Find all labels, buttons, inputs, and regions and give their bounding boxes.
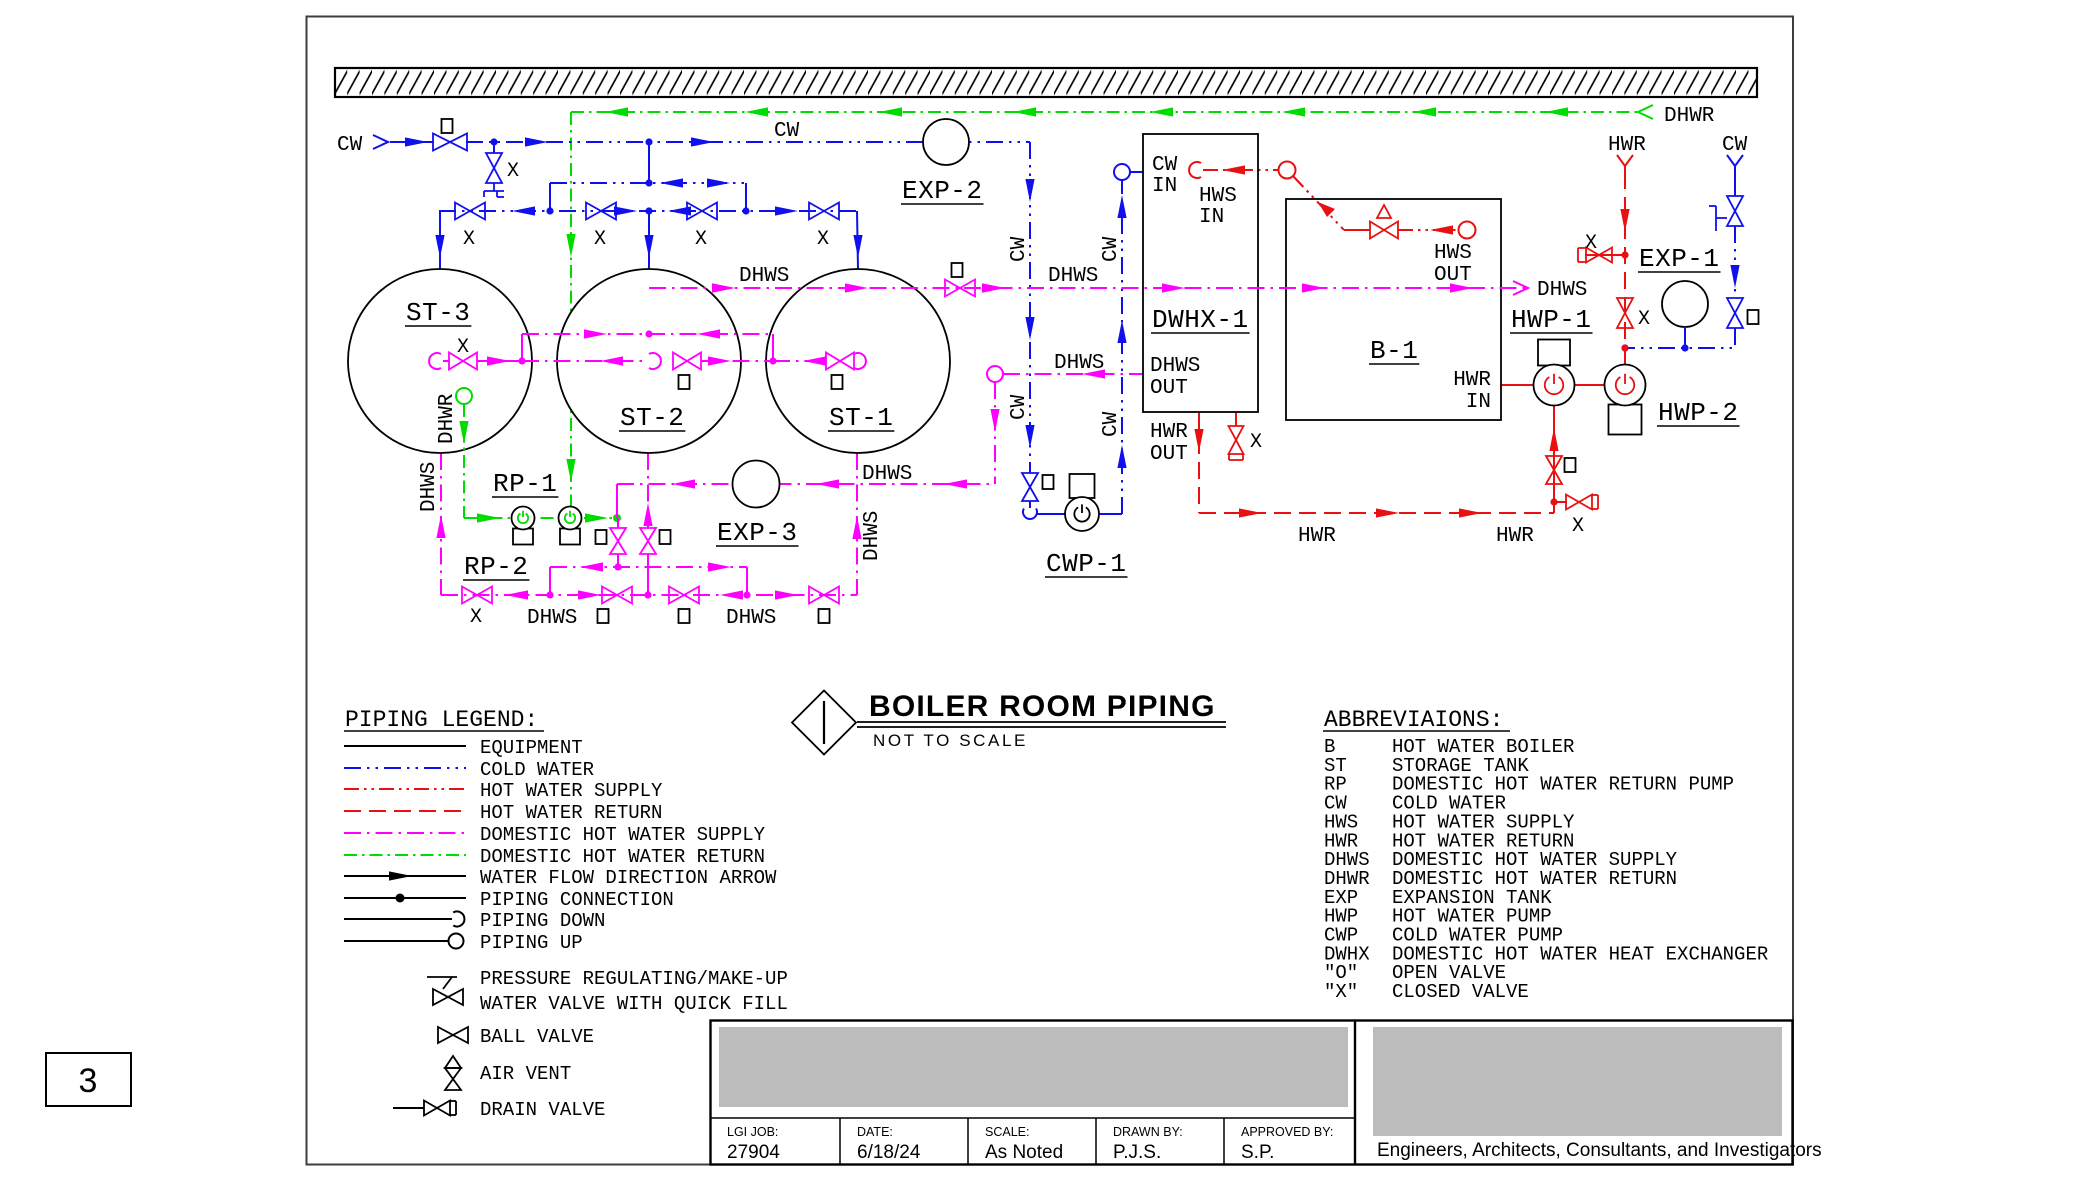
ball valve CW at CWP-1 (open) bbox=[1022, 473, 1038, 501]
svg-text:DRAWN BY:: DRAWN BY: bbox=[1113, 1125, 1183, 1139]
DHWR riser arrows bbox=[566, 234, 575, 257]
redacted logo box left bbox=[719, 1027, 1348, 1107]
storage tank ST-2 bbox=[557, 269, 741, 453]
svg-text:CW: CW bbox=[1008, 394, 1031, 420]
svg-text:X: X bbox=[507, 160, 519, 183]
svg-text:RP-2: RP-2 bbox=[464, 552, 528, 582]
svg-text:DHWS: DHWS bbox=[862, 463, 912, 486]
tank internal rows redraw bbox=[522, 333, 773, 335]
ball valve CW ST-2 (closed) bbox=[586, 203, 616, 220]
ball valve recirc 3 (open) bbox=[669, 587, 699, 604]
svg-text:CW: CW bbox=[337, 134, 363, 157]
pipe CW make-up down bbox=[1734, 226, 1736, 298]
svg-text:WATER FLOW DIRECTION ARROW: WATER FLOW DIRECTION ARROW bbox=[480, 867, 777, 889]
svg-text:IN: IN bbox=[1152, 175, 1177, 198]
svg-text:ST-2: ST-2 bbox=[620, 403, 684, 433]
svg-text:PIPING LEGEND:: PIPING LEGEND: bbox=[345, 707, 538, 733]
legend air vent bbox=[445, 1056, 461, 1068]
HWS port symbols over DWHX bbox=[1189, 162, 1201, 178]
boiler B-1 bbox=[1286, 199, 1501, 420]
svg-text:HWR: HWR bbox=[1150, 421, 1188, 444]
svg-text:CW: CW bbox=[1152, 154, 1178, 177]
CW entry drop symbol bbox=[1727, 155, 1743, 166]
pipe CW make-up to HWR tie-in bbox=[1625, 328, 1735, 348]
piping connection CW IN at DWHX-1 bbox=[1114, 164, 1130, 180]
junction DHWR-DHWS at RP discharge bbox=[613, 514, 621, 522]
svg-text:S.P.: S.P. bbox=[1241, 1142, 1274, 1163]
svg-text:X: X bbox=[594, 228, 606, 251]
svg-text:B-1: B-1 bbox=[1370, 336, 1418, 366]
svg-text:PIPING DOWN: PIPING DOWN bbox=[480, 910, 605, 932]
pipe CW into CWP-1 bbox=[1036, 513, 1065, 515]
pipe CW tank valve row bbox=[439, 210, 857, 212]
drain valve HWP-1 (closed) bbox=[1554, 501, 1567, 503]
legend pressure regulating valve bbox=[427, 976, 457, 978]
pipe DHWR main horizontal bbox=[571, 111, 1640, 113]
svg-text:OUT: OUT bbox=[1150, 443, 1188, 466]
ball valve CW ST-1 (closed) bbox=[809, 203, 839, 220]
svg-text:DOMESTIC HOT WATER RETURN: DOMESTIC HOT WATER RETURN bbox=[480, 846, 765, 868]
DHWR continuation open arrow bbox=[1638, 105, 1653, 119]
DHWR flow arrows bbox=[605, 107, 628, 116]
svg-text:COLD WATER: COLD WATER bbox=[480, 759, 594, 781]
title block cells line bbox=[710, 1117, 1355, 1119]
pipe HWS DWHX inlet bbox=[1189, 162, 1201, 178]
pipe DHWS tank upper tie row bbox=[522, 333, 773, 335]
legend piping up bbox=[344, 940, 448, 942]
pipe HWS diagonal over B-1 bbox=[1293, 176, 1344, 230]
legend piping connection bbox=[344, 897, 466, 899]
svg-text:EXP-1: EXP-1 bbox=[1639, 244, 1720, 274]
svg-text:CW: CW bbox=[1008, 236, 1031, 262]
drain valve DWHX (closed) bbox=[1235, 412, 1237, 426]
ball valve DHWS main (open) bbox=[945, 280, 975, 297]
svg-text:DHWS: DHWS bbox=[861, 511, 884, 561]
pipe HWP-1 suction drop bbox=[1553, 406, 1555, 513]
svg-text:CW: CW bbox=[774, 120, 800, 143]
DHWR connection in ST-3 redraw bbox=[456, 388, 472, 404]
piping connection DHWR at ST-3 bbox=[456, 388, 472, 404]
svg-text:HWR: HWR bbox=[1453, 369, 1491, 392]
svg-text:As Noted: As Noted bbox=[985, 1142, 1063, 1163]
junction CW to storage tank header bbox=[645, 138, 652, 145]
svg-text:HWP-2: HWP-2 bbox=[1658, 398, 1739, 428]
svg-text:P.J.S.: P.J.S. bbox=[1113, 1142, 1161, 1163]
svg-text:PIPING UP: PIPING UP bbox=[480, 932, 583, 954]
expansion tank EXP-2 bbox=[923, 119, 969, 165]
piping connection DHWS riser bbox=[987, 366, 1003, 382]
svg-text:6/18/24: 6/18/24 bbox=[857, 1142, 921, 1163]
svg-text:RP-1: RP-1 bbox=[493, 469, 557, 499]
air vent valve RP riser bbox=[610, 528, 626, 554]
svg-text:EXP-3: EXP-3 bbox=[717, 518, 798, 548]
DHWS continuation open arrow bbox=[1513, 281, 1528, 295]
svg-text:CLOSED VALVE: CLOSED VALVE bbox=[1392, 981, 1529, 1003]
legend ball valve bbox=[438, 1027, 468, 1043]
piping down cap ST-3 center bbox=[429, 353, 441, 369]
svg-text:EXP-2: EXP-2 bbox=[902, 176, 983, 206]
svg-text:APPROVED BY:: APPROVED BY: bbox=[1241, 1125, 1333, 1139]
pipe DHWS riser at RP pumps bbox=[616, 484, 618, 518]
title underline double bbox=[857, 721, 1226, 723]
pipe DHWS riser from tanks bbox=[648, 288, 650, 334]
svg-text:OUT: OUT bbox=[1434, 264, 1472, 287]
pipe HWR main bbox=[1199, 512, 1554, 514]
piping down cap ST-2 center bbox=[649, 353, 661, 369]
svg-text:DHWS: DHWS bbox=[739, 265, 789, 288]
svg-text:DHWS: DHWS bbox=[1048, 265, 1098, 288]
svg-text:HOT WATER SUPPLY: HOT WATER SUPPLY bbox=[480, 780, 663, 802]
svg-text:X: X bbox=[457, 336, 469, 359]
pipe CW from CWP-1 to DWHX riser bbox=[1099, 513, 1122, 515]
svg-text:HWR: HWR bbox=[1608, 134, 1646, 157]
ball valve recirc 4 (open) bbox=[809, 587, 839, 604]
pipe DHWS riser to expansion row bbox=[994, 382, 996, 484]
svg-text:IN: IN bbox=[1199, 206, 1224, 229]
pipe tank center row ST-3 to ST-2 bbox=[522, 360, 645, 362]
ball valve CW make-up (open) bbox=[1727, 298, 1743, 328]
svg-text:HWS: HWS bbox=[1434, 242, 1472, 265]
storage tank ST-3 bbox=[348, 269, 532, 453]
pipe CW drop into ST-2 bbox=[648, 211, 650, 269]
svg-text:HOT WATER RETURN: HOT WATER RETURN bbox=[480, 802, 662, 824]
svg-text:DHWS: DHWS bbox=[418, 462, 441, 512]
svg-text:CW: CW bbox=[1100, 236, 1123, 262]
pipe DHWS expansion row bbox=[617, 483, 995, 485]
legend piping down bbox=[344, 918, 452, 920]
legend hot water supply bbox=[344, 788, 466, 790]
legend cold water bbox=[344, 767, 466, 769]
ball valve ST-1 outlet (open) bbox=[826, 353, 854, 370]
CW entry continuation arrow bbox=[373, 135, 388, 149]
svg-text:CWP-1: CWP-1 bbox=[1046, 549, 1127, 579]
svg-text:DHWS: DHWS bbox=[1537, 279, 1587, 302]
pipe DHWS drop ST-2 bbox=[647, 453, 649, 528]
svg-text:PRESSURE REGULATING/MAKE-UP: PRESSURE REGULATING/MAKE-UP bbox=[480, 968, 788, 990]
pipe tank center row to ST-1 bbox=[773, 360, 826, 362]
svg-text:X: X bbox=[695, 228, 707, 251]
svg-text:OUT: OUT bbox=[1150, 377, 1188, 400]
svg-text:DATE:: DATE: bbox=[857, 1125, 893, 1139]
pipe CW tank header upper bbox=[550, 182, 746, 184]
title block divider bbox=[1354, 1020, 1356, 1165]
svg-text:X: X bbox=[1585, 232, 1597, 255]
svg-text:DHWR: DHWR bbox=[436, 393, 459, 444]
pipe DHWR pump suction header bbox=[464, 517, 617, 519]
expansion tank EXP-3 bbox=[733, 461, 780, 508]
svg-text:DHWS: DHWS bbox=[527, 607, 577, 630]
svg-text:27904: 27904 bbox=[727, 1142, 780, 1163]
svg-text:NOT TO SCALE: NOT TO SCALE bbox=[873, 731, 1028, 750]
pump HWP-2 bbox=[1609, 405, 1642, 435]
pipe HWR from DWHX-1 bbox=[1198, 412, 1200, 513]
svg-text:HWP-1: HWP-1 bbox=[1511, 305, 1592, 335]
ball valve ST-2 outlet (open) bbox=[673, 353, 701, 370]
drawing number 1 bbox=[823, 701, 825, 744]
svg-text:3: 3 bbox=[79, 1062, 98, 1100]
svg-text:ABBREVIAIONS:: ABBREVIAIONS: bbox=[1324, 707, 1503, 733]
pipe CW drop into ST-1 bbox=[857, 211, 858, 269]
svg-text:HWS: HWS bbox=[1199, 185, 1237, 208]
svg-text:IN: IN bbox=[1466, 391, 1491, 414]
pipe DHWR riser between ST-3 and ST-2 bbox=[570, 112, 572, 507]
ball valve recirc 2 (open) bbox=[602, 587, 632, 604]
svg-text:X: X bbox=[1572, 515, 1584, 538]
drawing number diamond bbox=[792, 691, 856, 755]
svg-text:HWR: HWR bbox=[1298, 525, 1336, 548]
svg-text:ST-1: ST-1 bbox=[829, 403, 893, 433]
svg-text:ST-3: ST-3 bbox=[406, 298, 470, 328]
pipe HWS boiler outlet run bbox=[1344, 229, 1370, 231]
piping down cap ST-1 center bbox=[854, 353, 866, 369]
legend drain valve bbox=[393, 1107, 424, 1109]
svg-text:SCALE:: SCALE: bbox=[985, 1125, 1029, 1139]
heat exchanger DWHX-1 bbox=[1143, 134, 1258, 412]
sheet border frame bbox=[307, 17, 1794, 1165]
legend hot water return bbox=[344, 810, 466, 812]
svg-text:EQUIPMENT: EQUIPMENT bbox=[480, 737, 583, 759]
pump CWP-1 bbox=[1070, 474, 1095, 498]
pipe DHWS recirc upper row bbox=[550, 566, 747, 568]
pipe DHWS drop ST-1 bbox=[856, 453, 858, 595]
piping down cap to CWP-1 bbox=[1029, 501, 1031, 508]
storage tank ST-1 bbox=[766, 269, 950, 453]
pipe HWR entry drop bbox=[1624, 172, 1626, 365]
svg-text:PIPING CONNECTION: PIPING CONNECTION bbox=[480, 889, 674, 911]
drain valve branch HWR (closed) bbox=[1585, 254, 1625, 256]
legend water flow direction arrow bbox=[344, 875, 466, 877]
pipe ST-3 outlet to junction bbox=[477, 360, 522, 362]
svg-text:DRAIN VALVE: DRAIN VALVE bbox=[480, 1099, 605, 1121]
svg-text:CW: CW bbox=[1722, 134, 1748, 157]
legend equipment bbox=[344, 745, 466, 747]
legend domestic hot water supply bbox=[344, 832, 466, 834]
pipe DHWS drop ST-3 to recirc row bbox=[440, 453, 442, 595]
svg-text:DWHX-1: DWHX-1 bbox=[1152, 305, 1249, 335]
pump RP-1 bbox=[560, 529, 580, 545]
svg-text:X: X bbox=[470, 606, 482, 629]
ball valve CW entry (open) bbox=[433, 134, 467, 151]
piping connection HWS OUT at boiler bbox=[1459, 222, 1476, 239]
title block frame bbox=[711, 1021, 1793, 1165]
svg-text:X: X bbox=[463, 228, 475, 251]
pipe HWS diagonal from boiler bbox=[1293, 176, 1344, 230]
svg-text:X: X bbox=[1250, 431, 1262, 454]
svg-text:BALL VALVE: BALL VALVE bbox=[480, 1026, 594, 1048]
expansion tank EXP-1 bbox=[1662, 281, 1708, 327]
svg-text:"X": "X" bbox=[1324, 981, 1358, 1003]
ball valve recirc (closed) bbox=[462, 587, 492, 604]
junction CW make-up branch bbox=[490, 138, 497, 145]
pipe CW main bbox=[390, 141, 434, 143]
svg-text:CW: CW bbox=[1100, 411, 1123, 437]
pressure regulating make-up water valve with quick fill bbox=[493, 142, 495, 153]
pipe DHWS recirc bottom row bbox=[441, 594, 857, 596]
svg-text:LGI JOB:: LGI JOB: bbox=[727, 1125, 778, 1139]
svg-text:DOMESTIC HOT WATER SUPPLY: DOMESTIC HOT WATER SUPPLY bbox=[480, 824, 766, 846]
svg-text:X: X bbox=[817, 228, 829, 251]
pipe DHWS from DWHX-1 outlet bbox=[1003, 373, 1143, 375]
ball valve HWR make-up (closed) bbox=[1617, 298, 1633, 328]
svg-text:WATER VALVE WITH QUICK FILL: WATER VALVE WITH QUICK FILL bbox=[480, 993, 788, 1015]
pump RP-2 bbox=[513, 529, 533, 545]
air vent valve ST-2 drop bbox=[640, 528, 656, 554]
svg-text:Engineers, Architects, Consult: Engineers, Architects, Consultants, and … bbox=[1377, 1140, 1822, 1161]
svg-text:DHWS: DHWS bbox=[1054, 352, 1104, 375]
pipe HWP-1 to HWP-2 bbox=[1574, 384, 1605, 386]
pipe DHWR drop from ST-3 connection bbox=[463, 404, 465, 518]
pipe B-1 to HWP-1 bbox=[1501, 384, 1534, 386]
svg-text:DHWS: DHWS bbox=[726, 607, 776, 630]
pump HWP-1 bbox=[1538, 340, 1570, 366]
svg-text:DHWR: DHWR bbox=[1664, 105, 1715, 128]
svg-text:BOILER ROOM PIPING: BOILER ROOM PIPING bbox=[869, 690, 1216, 723]
pipe CW main to riser corner bbox=[1029, 142, 1031, 473]
ball valve ST-3 outlet (closed) bbox=[443, 360, 449, 362]
ball valve CW mid (closed) bbox=[687, 203, 717, 220]
pressure regulating make-up valve right (quick fill) bbox=[1727, 196, 1743, 226]
sheet number box bbox=[46, 1053, 131, 1106]
ball valve CW ST-3 (closed) bbox=[455, 203, 485, 220]
svg-text:AIR VENT: AIR VENT bbox=[480, 1063, 571, 1085]
svg-text:X: X bbox=[1638, 308, 1650, 331]
ball valve HWP-1 suction (open) bbox=[1546, 456, 1562, 484]
svg-text:DHWS: DHWS bbox=[1150, 355, 1200, 378]
legend domestic hot water return bbox=[344, 854, 466, 856]
piping connection HWS corner bbox=[1279, 162, 1296, 179]
pipe CW drop into ST-3 bbox=[439, 211, 441, 269]
redacted logo box right bbox=[1373, 1027, 1782, 1136]
pipe DHWS main over vessels (redraw) bbox=[649, 287, 1526, 289]
pipe DHWS main header bbox=[649, 287, 1526, 289]
pipe CW drop to tank header bbox=[648, 142, 650, 183]
ball valve HWS with relief (open) bbox=[1370, 222, 1398, 239]
HWS OUT circle over B-1 bbox=[1459, 222, 1476, 239]
svg-text:HWR: HWR bbox=[1496, 525, 1534, 548]
